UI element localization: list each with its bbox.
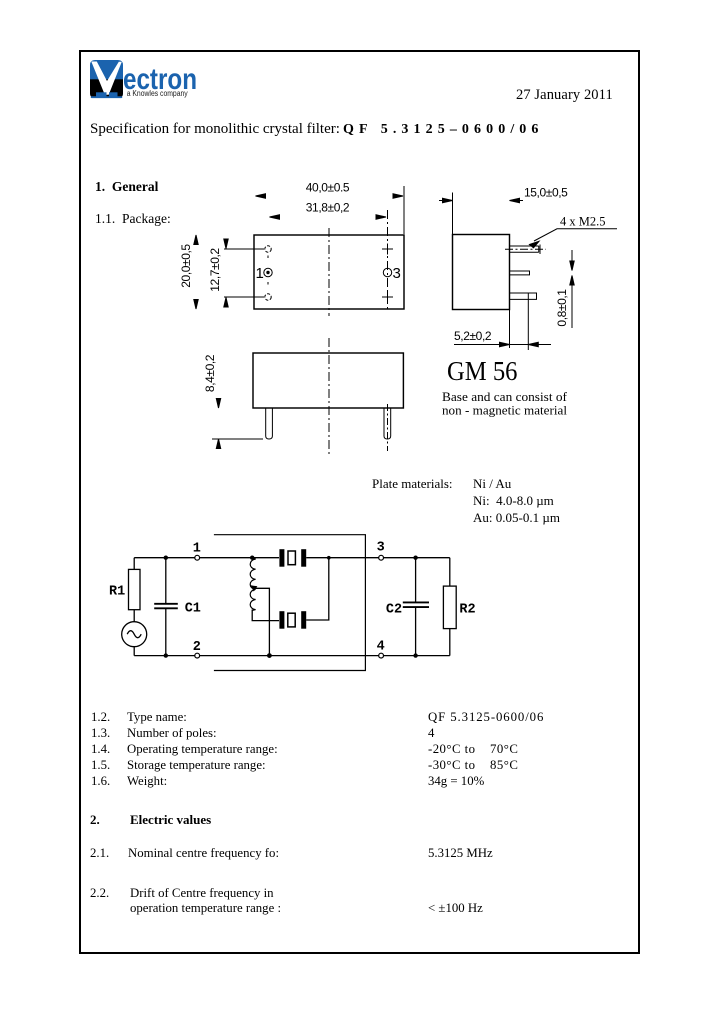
svg-text:5,2±0,2: 5,2±0,2 <box>454 329 492 343</box>
resistor R1 <box>129 569 141 609</box>
svg-text:a Knowles company: a Knowles company <box>127 89 188 98</box>
wire C1 branch <box>165 558 167 656</box>
svg-text:3: 3 <box>393 265 401 282</box>
svg-text:3: 3 <box>377 541 385 556</box>
4 x M2.5 label with leader <box>530 215 618 248</box>
dimension 0,8±0,1 <box>555 250 574 328</box>
top view centerline <box>328 228 330 316</box>
wire tap to bottom rail <box>255 588 270 655</box>
wire crystal Y2 to top rail <box>306 558 329 620</box>
front view left pin <box>266 408 273 439</box>
page border frame <box>79 50 640 954</box>
spec list <box>91 711 110 724</box>
wire bottom rail <box>134 655 450 657</box>
junction coil top <box>250 556 254 560</box>
svg-text:20,0±0,5: 20,0±0,5 <box>179 244 193 288</box>
wire C2 branch <box>415 558 417 656</box>
wire coil bottom to crystal Y2 <box>252 610 279 621</box>
svg-text:GM 56: GM 56 <box>447 355 518 386</box>
junction C2 bottom <box>413 653 417 657</box>
svg-text:C1: C1 <box>185 602 201 617</box>
resistor R2 <box>443 586 456 629</box>
wire left branch <box>133 558 135 656</box>
dimension 12,7±0,2 (left, rotated) <box>208 239 264 307</box>
front view centerline <box>328 338 330 456</box>
svg-text:0,8±0,1: 0,8±0,1 <box>555 289 569 327</box>
dimension 40,0±0.5 <box>256 181 405 235</box>
side view bottom stud <box>510 293 537 350</box>
dimension 5,2±0,2 <box>454 310 551 349</box>
top view can outline <box>254 235 404 309</box>
dimension 8,4±0,2 <box>203 354 263 448</box>
crystal Y1 left plate <box>279 549 284 567</box>
inductor L1 <box>250 558 255 611</box>
crystal Y1 right plate <box>301 549 306 567</box>
wire top rail right <box>306 557 450 559</box>
wire top rail left <box>134 557 279 559</box>
crystal Y2 right plate <box>301 611 306 629</box>
dimension 20,0±0,5 (left, rotated) <box>179 235 198 309</box>
AC source V1 <box>122 622 147 647</box>
svg-text:R1: R1 <box>109 585 125 600</box>
wire R2 branch <box>449 558 451 656</box>
plate materials <box>372 477 453 490</box>
date <box>516 88 613 103</box>
inductor tap arrow <box>251 585 258 591</box>
dimension 15,0±0,5 <box>439 186 568 235</box>
node 1 <box>195 555 200 560</box>
circuit schematic <box>100 525 490 690</box>
side view middle pin <box>510 271 530 275</box>
svg-text:Base and can consist of: Base and can consist of <box>442 390 568 404</box>
svg-text:31,8±0,2: 31,8±0,2 <box>306 201 350 215</box>
section 1 <box>95 180 158 194</box>
crystal Y1 body <box>288 551 295 565</box>
svg-text:R2: R2 <box>459 603 475 618</box>
mechanical drawing <box>170 160 640 470</box>
node 4 <box>379 653 384 658</box>
capacitor C2 <box>403 602 429 607</box>
crystal Y2 left plate <box>279 611 284 629</box>
svg-text:15,0±0,5: 15,0±0,5 <box>524 186 568 200</box>
svg-text:8,4±0,2: 8,4±0,2 <box>203 354 217 392</box>
front view right pin <box>384 408 391 439</box>
svg-text:4 x M2.5: 4 x M2.5 <box>560 215 606 229</box>
front view right pin centerline <box>387 404 389 451</box>
node 2 <box>195 653 200 658</box>
dimension 31,8±0,2 <box>270 201 388 313</box>
side view can outline <box>453 235 510 310</box>
capacitor C1 <box>154 604 178 609</box>
junction C2 top <box>413 556 417 560</box>
junction C1 top <box>164 556 168 560</box>
package outline box <box>214 535 366 671</box>
svg-text:4: 4 <box>377 640 385 655</box>
junction tap bottom <box>267 653 272 658</box>
junction C1 bottom <box>164 653 168 657</box>
svg-text:1: 1 <box>256 265 264 282</box>
top view pin marks right column <box>382 244 393 303</box>
front view can outline <box>253 353 403 408</box>
junction crystals <box>327 556 331 560</box>
svg-text:1: 1 <box>193 542 201 557</box>
Vectron logo <box>88 58 218 100</box>
side view top stud (M2.5) <box>505 245 546 255</box>
node 3 <box>379 555 384 560</box>
crystal Y2 body <box>288 613 295 627</box>
title line <box>90 122 340 137</box>
top view pin marks left column <box>264 246 272 300</box>
svg-text:40,0±0.5: 40,0±0.5 <box>306 181 350 195</box>
svg-text:2: 2 <box>193 640 201 655</box>
svg-text:non - magnetic material: non - magnetic material <box>442 404 567 418</box>
svg-text:12,7±0,2: 12,7±0,2 <box>208 248 222 292</box>
svg-text:C2: C2 <box>386 603 402 618</box>
